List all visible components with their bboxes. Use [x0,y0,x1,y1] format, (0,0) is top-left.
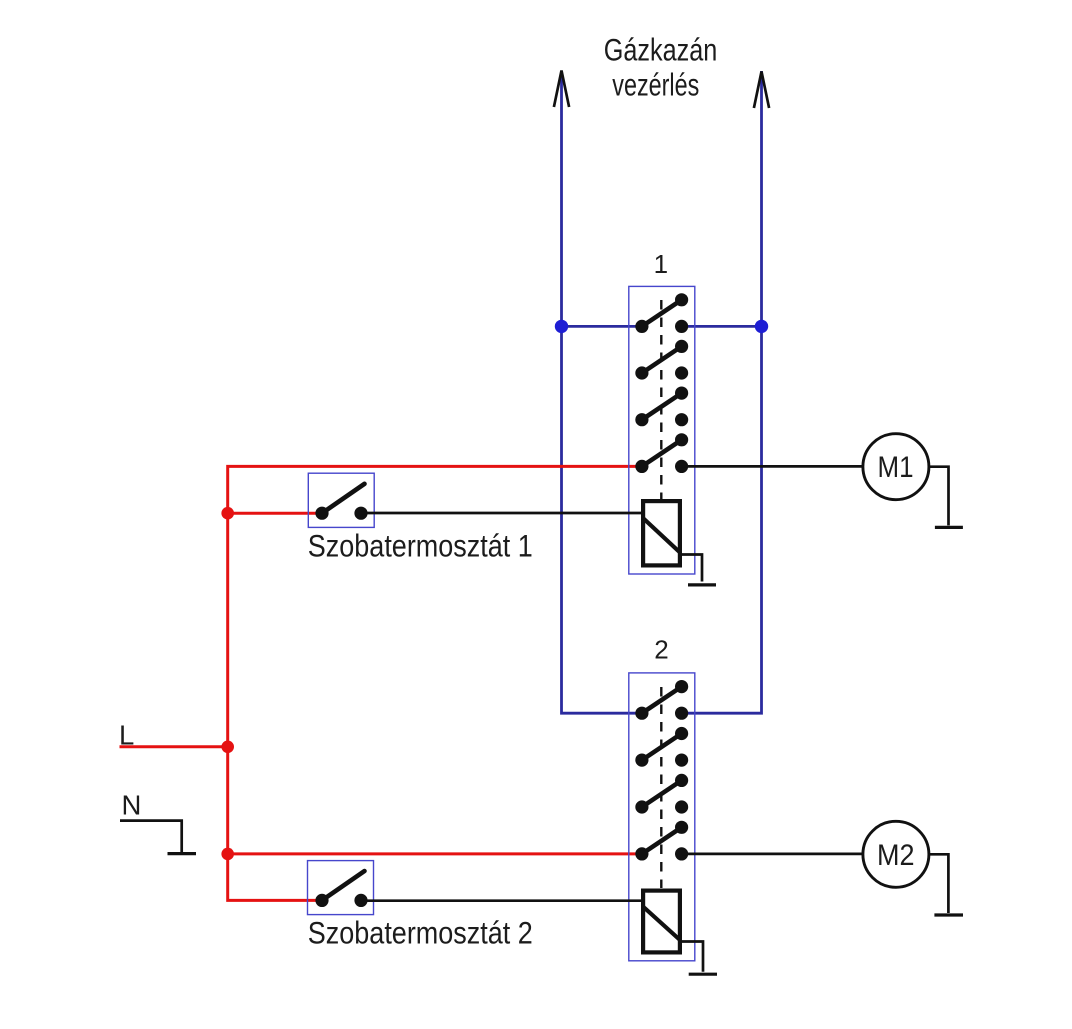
wire: red branch from L terminal [120,745,228,748]
relay K2 mechanical linkage (dashed) [660,687,662,888]
svg-text:Szobatermosztát 1: Szobatermosztát 1 [308,527,533,563]
wire: thermostat S2 to relay K2 coil [361,899,643,902]
relay K1 contact 3 [635,387,688,427]
arrowhead right riser [754,72,769,109]
relay K2 contact 3 [635,774,688,814]
svg-text:L: L [119,719,134,750]
svg-text:vezérlés: vezérlés [612,67,699,103]
wire: relay K1 contact 4 to motor M1 [682,465,864,468]
thermostat switch S1 box [308,473,374,527]
relay K2 enclosure box [629,673,695,961]
thermostat switch S2 [315,871,367,907]
relay K2 contact 2 [635,727,688,767]
arrowhead left riser [554,71,569,108]
wire: red branch to relay K2 contact 4 [228,852,642,855]
title Gázkazán vezérlés [604,32,718,103]
relay K2 contact 4 [635,821,688,861]
svg-text:2: 2 [654,635,668,665]
svg-text:N: N [122,789,142,820]
junction: red node at relay K2 branch [221,848,234,861]
ground: relay K1 coil [688,583,716,586]
relay K1 contact 4 [635,433,688,473]
wire: motor M1 to ground [929,467,949,526]
wire: relay K2 coil output to ground [682,942,704,972]
junction: blue node on right riser [755,320,768,333]
ground: N terminal bar [168,852,197,855]
thermostat switch S1 [315,484,367,520]
thermostat switch S2 box [308,861,374,915]
motor M2 [863,821,929,887]
junction: blue node on left riser [555,320,568,333]
wire: blue link left riser to relay K1 contact 1 [562,325,642,328]
wire: relay K1 coil output to ground [682,555,703,582]
relay K2 contact 1 [635,680,688,720]
wire: right blue riser to boiler control (with corner to relay K2 pin) [682,71,762,713]
relay K1 coil [643,501,680,565]
wire: motor M2 to ground [929,854,949,913]
relay K1 enclosure box [629,286,695,574]
ground: motor M1 [935,526,963,529]
relay K1 contact 1 [635,293,688,333]
junction: red node at thermostat 1 branch [221,507,234,520]
wire: N terminal lead [120,821,182,853]
wire: thermostat S1 to relay K1 coil [361,512,643,515]
svg-text:M2: M2 [877,839,915,872]
junction: red node at L branch [221,741,234,754]
wire: blue link relay K1 contact 1 to right riser [682,325,762,328]
wire: left blue riser to boiler control (with corner to relay K2 pin) [562,71,642,714]
relay K1 contact 2 [635,340,688,380]
svg-text:Gázkazán: Gázkazán [604,32,718,68]
svg-text:1: 1 [654,249,668,279]
wire: red bus L (vertical) from relay K1 row4 down and to thermostat 2 [228,466,642,900]
relay K2 coil [643,891,680,953]
wire: relay K2 contact 4 to motor M2 [682,853,864,856]
motor M1 [863,434,929,500]
svg-text:M1: M1 [878,451,914,484]
ground: relay K2 coil [689,973,717,976]
relay K1 mechanical linkage (dashed) [660,300,662,499]
wire: red branch to thermostat 1 [228,512,322,515]
ground: motor M2 [934,913,963,916]
svg-text:Szobatermosztát 2: Szobatermosztát 2 [308,915,533,951]
